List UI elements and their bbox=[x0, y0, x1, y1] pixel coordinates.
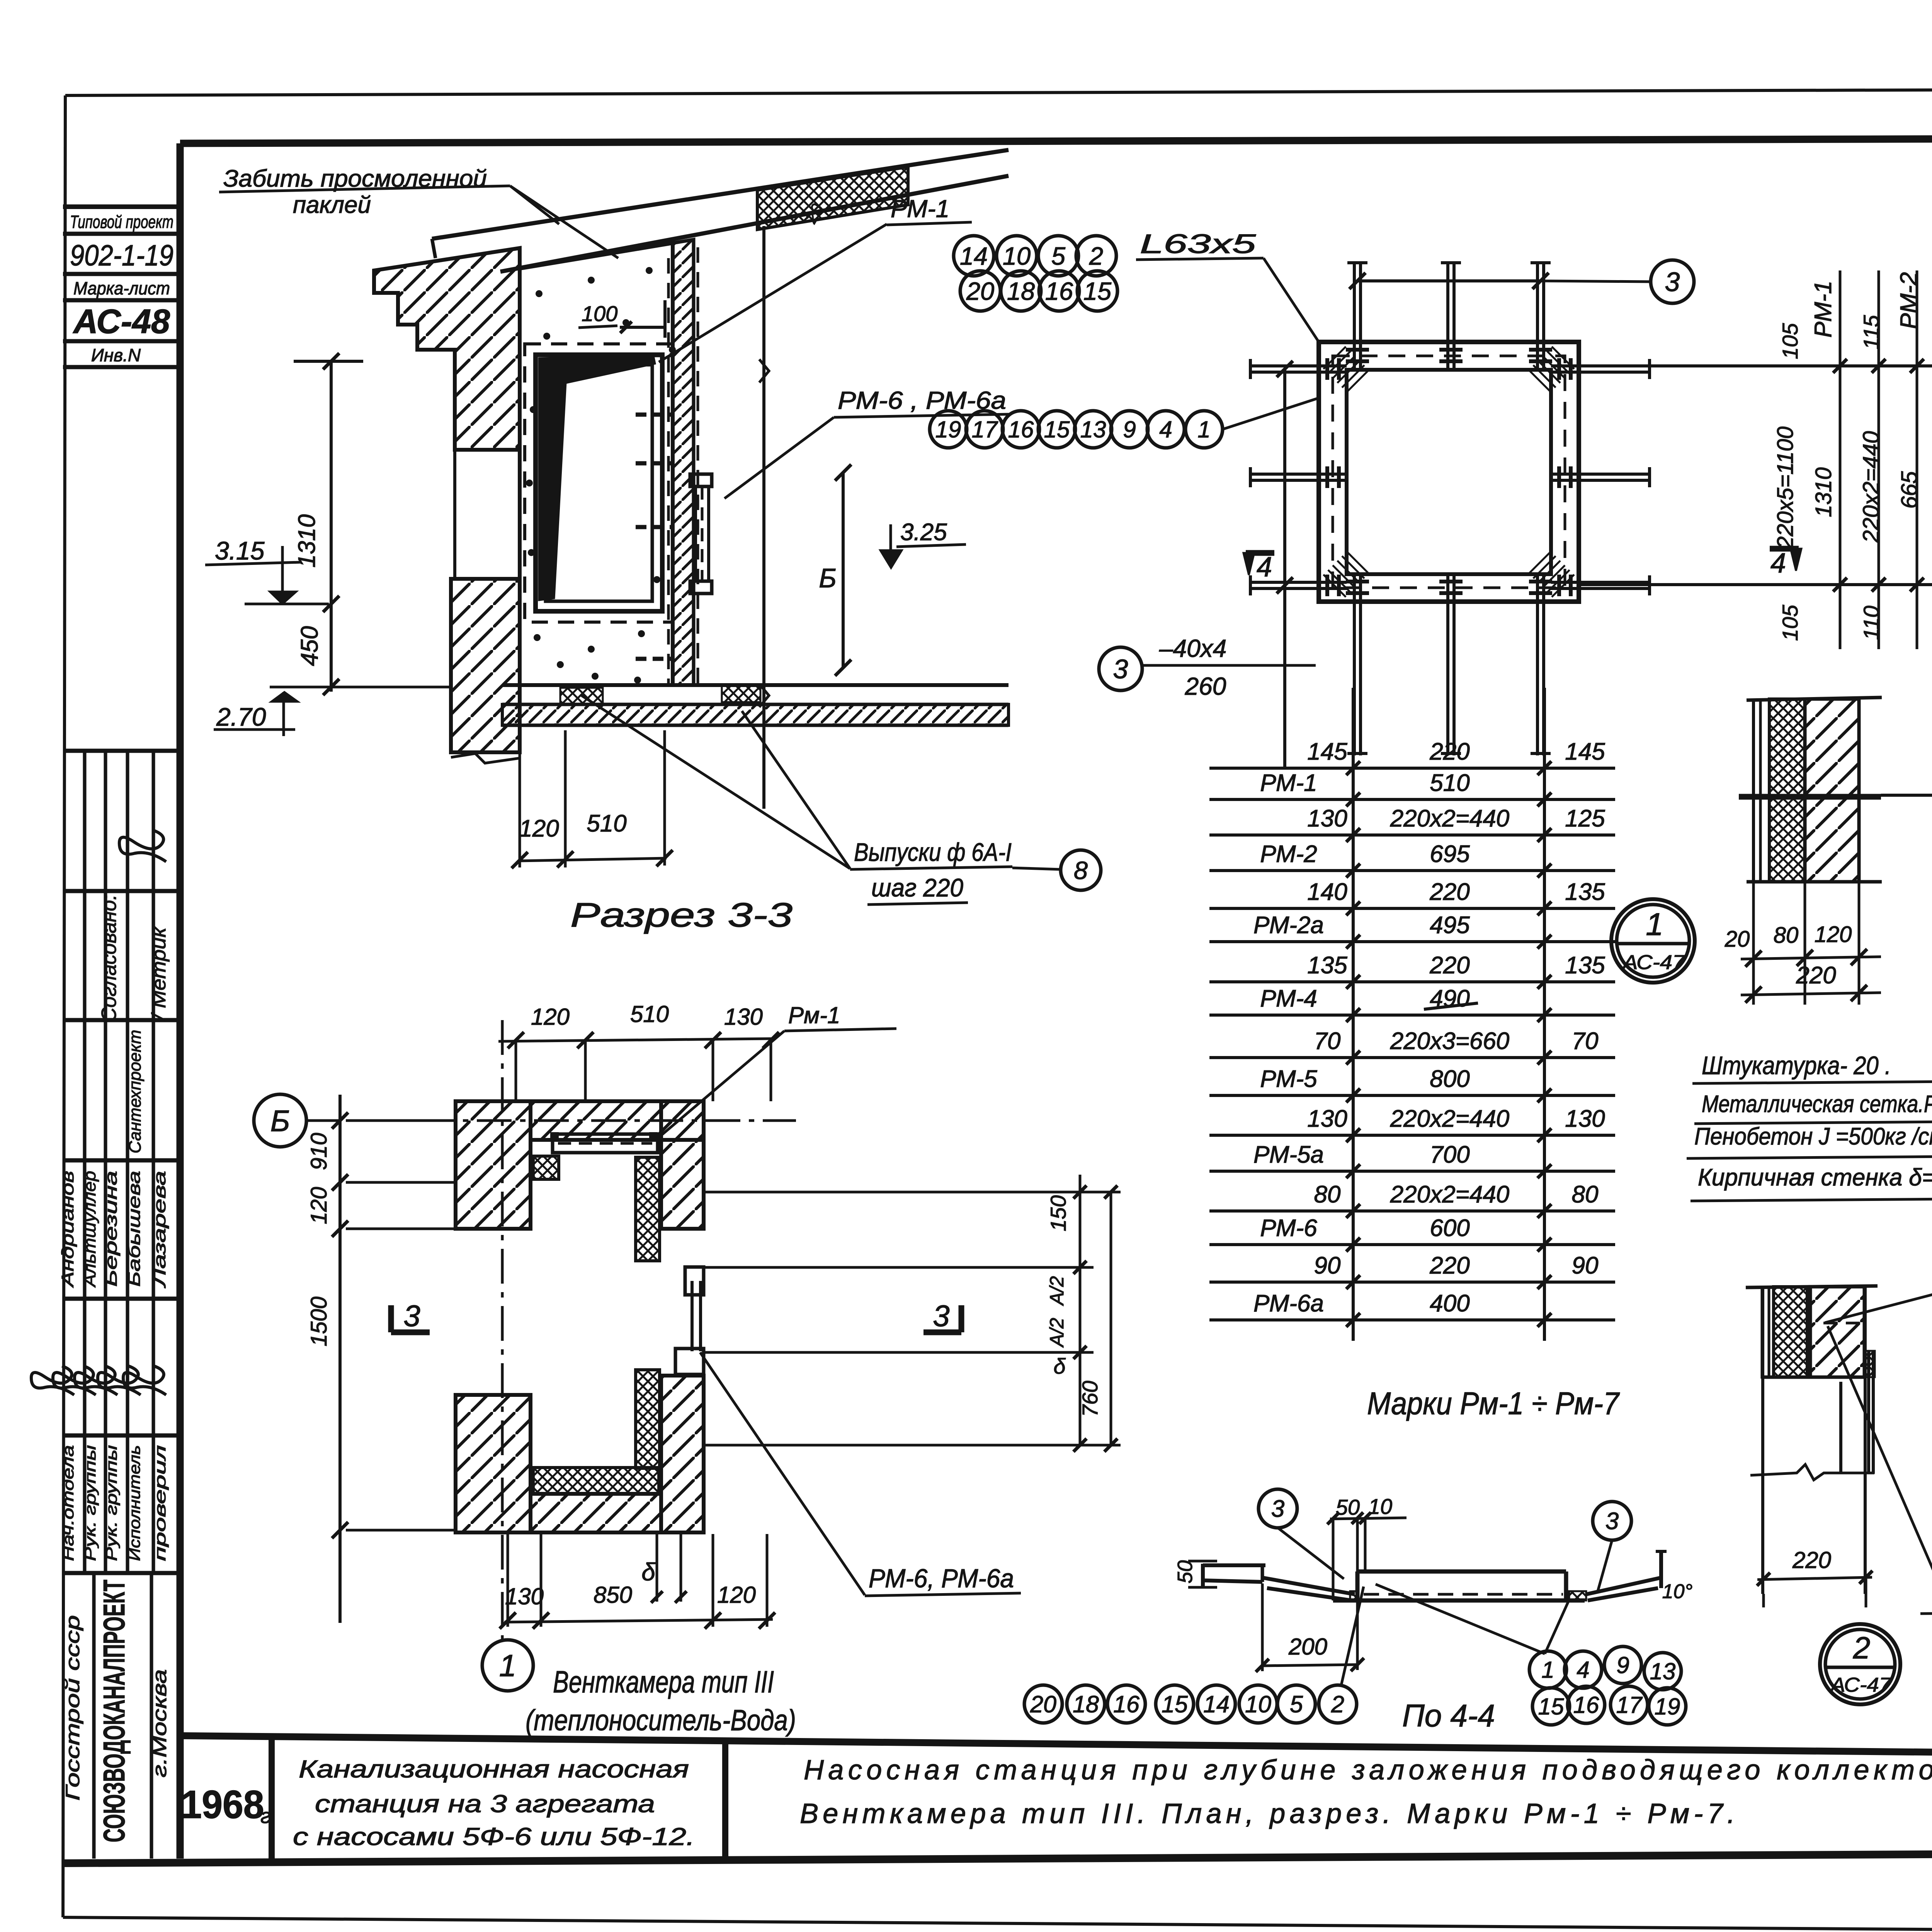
svg-text:По 4-4: По 4-4 bbox=[1402, 1698, 1495, 1733]
dashed anchor frame around opening bbox=[525, 344, 673, 622]
svg-text:70: 70 bbox=[1572, 1028, 1599, 1054]
svg-text:200: 200 bbox=[1288, 1634, 1327, 1660]
svg-text:Пенобетон Ј =500кг /см²: Пенобетон Ј =500кг /см² bbox=[1694, 1123, 1932, 1150]
svg-text:δ: δ bbox=[641, 1558, 656, 1586]
strip row: Марка-лист bbox=[63, 298, 180, 303]
svg-text:Сантехпроект: Сантехпроект bbox=[126, 1030, 145, 1153]
svg-text:18: 18 bbox=[1007, 277, 1035, 305]
svg-text:100: 100 bbox=[582, 301, 617, 326]
svg-text:15: 15 bbox=[1538, 1694, 1564, 1719]
dimension ladder rails bbox=[1352, 688, 1355, 1341]
svg-text:10: 10 bbox=[1368, 1494, 1392, 1519]
svg-text:РМ-1: РМ-1 bbox=[891, 195, 949, 223]
svg-text:910: 910 bbox=[306, 1133, 332, 1170]
svg-text:Рук. группы: Рук. группы bbox=[103, 1445, 120, 1561]
svg-text:5: 5 bbox=[1051, 242, 1066, 270]
ladder row РМ-2 695 bbox=[1209, 869, 1615, 872]
plan bottom wall band bbox=[531, 1494, 661, 1532]
svg-text:5: 5 bbox=[1290, 1691, 1303, 1717]
brick lining strip right of panel bbox=[673, 240, 694, 685]
opening element right wall bbox=[685, 1267, 704, 1295]
frame plan dashed contour bbox=[1333, 356, 1565, 588]
svg-text:СОЮЗВОДОКАНАЛПРОЕКТ: СОЮЗВОДОКАНАЛПРОЕКТ bbox=[97, 1580, 131, 1842]
svg-text:РМ-5а: РМ-5а bbox=[1253, 1141, 1324, 1168]
svg-text:50: 50 bbox=[1173, 1560, 1197, 1583]
svg-text:1968: 1968 bbox=[181, 1782, 264, 1827]
svg-text:паклей: паклей bbox=[293, 192, 371, 218]
strip row: АС-48 bbox=[63, 339, 180, 344]
svg-text:Андрианов: Андрианов bbox=[58, 1171, 77, 1288]
svg-text:3.15: 3.15 bbox=[215, 536, 265, 565]
svg-text:400: 400 bbox=[1430, 1290, 1469, 1317]
svg-text:Марки Рм-1 ÷ Рм-7: Марки Рм-1 ÷ Рм-7 bbox=[1367, 1386, 1620, 1421]
svg-text:220х2=440: 220х2=440 bbox=[1390, 1105, 1510, 1132]
svg-text:13: 13 bbox=[1650, 1658, 1676, 1684]
ladder row 140 220 bbox=[1209, 907, 1615, 910]
plan wall top-left block bbox=[456, 1101, 531, 1229]
top dimension 220 with bubble 3 bbox=[1357, 279, 1541, 282]
svg-text:450: 450 bbox=[296, 626, 323, 666]
svg-text:16: 16 bbox=[1045, 277, 1073, 305]
break line under lower wall bbox=[451, 753, 520, 763]
leader to bubble cluster bbox=[1341, 1587, 1364, 1687]
ladder row 70 220х3=660 bbox=[1209, 1056, 1615, 1059]
title block bottom line bbox=[63, 1851, 1932, 1863]
concrete wall panel bbox=[520, 243, 673, 685]
svg-text:220: 220 bbox=[1429, 952, 1469, 979]
dimension fan: chain lines bbox=[1579, 364, 1932, 367]
ladder row РМ-5а 700 bbox=[1209, 1170, 1615, 1173]
detail 2: wall below bbox=[1761, 1287, 1764, 1594]
svg-text:проверил: проверил bbox=[152, 1445, 169, 1561]
svg-text:3: 3 bbox=[1271, 1496, 1284, 1522]
frame plan inner square bbox=[1347, 370, 1551, 574]
svg-text:АС-48: АС-48 bbox=[73, 302, 170, 340]
ladder row 145 220 bbox=[1209, 767, 1615, 770]
svg-text:220х3=660: 220х3=660 bbox=[1390, 1028, 1510, 1054]
svg-text:1500: 1500 bbox=[306, 1296, 332, 1346]
svg-text:510: 510 bbox=[630, 1001, 669, 1027]
svg-text:90: 90 bbox=[1572, 1252, 1599, 1279]
ladder row 135 220 bbox=[1209, 980, 1615, 983]
svg-text:3: 3 bbox=[1665, 267, 1680, 297]
svg-text:3: 3 bbox=[403, 1299, 420, 1333]
detail 1: dims 20 80 120 220 bbox=[1752, 882, 1755, 1005]
svg-text:2: 2 bbox=[1853, 1631, 1871, 1665]
svg-text:220: 220 bbox=[1429, 738, 1469, 765]
svg-text:А/2: А/2 bbox=[1046, 1276, 1068, 1306]
svg-text:10: 10 bbox=[1245, 1691, 1271, 1717]
left dimension line 1310/450 bbox=[330, 361, 333, 692]
svg-text:800: 800 bbox=[1430, 1066, 1469, 1092]
svg-text:510: 510 bbox=[1430, 770, 1469, 796]
svg-text:2: 2 bbox=[1089, 242, 1103, 270]
signatures column bbox=[29, 1361, 79, 1395]
position bubbles 20 18 16 15 bbox=[960, 271, 1000, 311]
sheet outer border bbox=[65, 88, 1932, 95]
svg-text:РМ-6: РМ-6 bbox=[1260, 1215, 1317, 1242]
svg-text:1310: 1310 bbox=[1811, 467, 1836, 517]
svg-text:19: 19 bbox=[1655, 1694, 1680, 1719]
svg-text:Рм-1: Рм-1 bbox=[788, 1002, 840, 1028]
svg-text:902-1-19: 902-1-19 bbox=[70, 239, 173, 272]
svg-text:20: 20 bbox=[966, 277, 994, 305]
svg-text:г.Москва: г.Москва bbox=[149, 1669, 170, 1777]
frame plan rebar legs bbox=[1353, 261, 1356, 370]
svg-text:Лазарева: Лазарева bbox=[150, 1171, 169, 1289]
detail 2: break line bbox=[1750, 1464, 1874, 1480]
svg-text:18: 18 bbox=[1073, 1691, 1099, 1717]
plan right dimension stack 150 А/2 760 bbox=[1079, 1175, 1082, 1445]
svg-text:Исполнитель: Исполнитель bbox=[126, 1445, 143, 1561]
svg-text:130: 130 bbox=[1565, 1105, 1605, 1132]
svg-text:145: 145 bbox=[1307, 738, 1347, 765]
svg-text:760: 760 bbox=[1078, 1381, 1102, 1417]
bubble cluster 1 4 9 13 / 15 16 17 19 bbox=[1529, 1651, 1566, 1688]
svg-text:4: 4 bbox=[1257, 552, 1272, 583]
svg-text:220х2=440: 220х2=440 bbox=[1390, 805, 1510, 832]
svg-text:Инв.N: Инв.N bbox=[91, 345, 141, 365]
leader РМ-4 to Выпуски bbox=[1828, 1326, 1932, 1594]
svg-text:4: 4 bbox=[1770, 548, 1786, 579]
rebar dots in panel bbox=[536, 290, 543, 297]
svg-text:(теплоноситель-Вода): (теплоноситель-Вода) bbox=[526, 1704, 796, 1737]
svg-text:Кирпичная стенка δ=120мм: Кирпичная стенка δ=120мм bbox=[1698, 1164, 1932, 1191]
svg-text:130: 130 bbox=[1307, 1105, 1347, 1132]
svg-text:1: 1 bbox=[499, 1648, 517, 1683]
wall joint middle band bbox=[453, 450, 456, 579]
detail 1: wall strip bbox=[1747, 697, 1882, 700]
svg-text:510: 510 bbox=[587, 810, 626, 837]
ladder row 130 220х2=440 bbox=[1209, 1134, 1615, 1137]
channel РМ-6 on right face bbox=[690, 474, 712, 486]
svg-text:665: 665 bbox=[1897, 471, 1922, 509]
roof slab of section 3-3 bbox=[432, 150, 1009, 239]
ladder row 130 220х2=440 bbox=[1209, 833, 1615, 837]
plan left dimension line 910/120/1500 bbox=[338, 1095, 342, 1623]
svg-text:L63х5: L63х5 bbox=[1140, 229, 1257, 259]
position bubbles 19 17 16 15 13 9 4 1 bbox=[930, 411, 967, 448]
svg-text:20: 20 bbox=[1725, 927, 1750, 952]
svg-text:3: 3 bbox=[933, 1299, 949, 1333]
svg-text:с насосами 5Ф-6 или 5Ф-12.: с насосами 5Ф-6 или 5Ф-12. bbox=[293, 1823, 695, 1850]
svg-text:РМ-6, РМ-6а: РМ-6, РМ-6а bbox=[869, 1564, 1014, 1593]
upper left wall (hatched) with parapet bbox=[374, 248, 520, 450]
detail bubble 1 (plan) bbox=[482, 1640, 533, 1691]
plan top wall band bbox=[531, 1101, 704, 1140]
corner weld hatch bbox=[1323, 347, 1346, 369]
detail 2: plaster lines bbox=[1761, 1287, 1764, 1379]
ladder row РМ-5 800 bbox=[1209, 1094, 1615, 1097]
plan lining crosshatch right bottom bbox=[636, 1370, 660, 1468]
svg-text:130: 130 bbox=[1307, 805, 1347, 832]
svg-text:станция на 3 агрегата: станция на 3 агрегата bbox=[315, 1790, 655, 1818]
section mark 3 left bbox=[388, 1305, 394, 1332]
svg-text:1310: 1310 bbox=[294, 514, 320, 568]
floor slab of section 3-3 bbox=[502, 683, 1009, 687]
svg-text:3: 3 bbox=[1605, 1508, 1619, 1535]
bubble row 20 18 16 15 14 10 5 2 bbox=[1024, 1685, 1062, 1723]
svg-text:220: 220 bbox=[1429, 1252, 1469, 1279]
ladder row РМ-1 510 bbox=[1209, 798, 1615, 801]
svg-text:220: 220 bbox=[1429, 879, 1469, 905]
svg-text:Венткамера тип III: Венткамера тип III bbox=[553, 1665, 774, 1699]
svg-text:16: 16 bbox=[1113, 1691, 1139, 1717]
dashed lines along lining strip bbox=[667, 258, 670, 684]
open hatch lid (dark wedge) bbox=[539, 356, 655, 600]
detail 2: wall top bbox=[1746, 1286, 1878, 1287]
svg-text:70: 70 bbox=[1314, 1028, 1341, 1054]
strip row: Инв.N bbox=[63, 365, 180, 369]
leader bubble 1 to frame bbox=[1223, 398, 1319, 429]
title block cell separators bbox=[269, 1736, 275, 1862]
svg-text:135: 135 bbox=[1307, 952, 1347, 979]
svg-text:16: 16 bbox=[1008, 417, 1034, 442]
svg-text:850: 850 bbox=[594, 1582, 632, 1608]
svg-text:Согласовано:: Согласовано: bbox=[97, 895, 121, 1022]
svg-text:10: 10 bbox=[1003, 242, 1031, 270]
svg-text:4: 4 bbox=[1577, 1657, 1589, 1683]
svg-text:/ Метрик: / Метрик bbox=[148, 926, 170, 1021]
svg-text:17: 17 bbox=[972, 417, 998, 442]
svg-text:Типовой проект: Типовой проект bbox=[70, 212, 173, 232]
svg-text:Госстрой ссср: Госстрой ссср bbox=[62, 1615, 83, 1801]
svg-text:Канализационная насосная: Канализационная насосная bbox=[299, 1755, 689, 1783]
svg-text:130: 130 bbox=[724, 1004, 763, 1030]
svg-text:120: 120 bbox=[519, 815, 559, 842]
svg-text:120: 120 bbox=[717, 1582, 756, 1608]
svg-text:Металлическая сетка.Рабитца: Металлическая сетка.Рабитца bbox=[1702, 1091, 1932, 1117]
svg-text:Разрез 3-3: Разрез 3-3 bbox=[570, 896, 793, 934]
roof insulation crosshatch bbox=[757, 167, 908, 230]
ladder row РМ-6а 400 bbox=[1209, 1318, 1615, 1321]
svg-text:10°: 10° bbox=[1662, 1580, 1693, 1603]
detail 2: dashed line bbox=[1823, 1322, 1866, 1325]
svg-text:–40х4: –40х4 bbox=[1159, 634, 1226, 662]
svg-text:220х2=440: 220х2=440 bbox=[1390, 1181, 1510, 1208]
approval signature squiggle bbox=[117, 825, 171, 862]
svg-text:4: 4 bbox=[1159, 417, 1172, 442]
svg-text:Марка-лист: Марка-лист bbox=[73, 278, 170, 298]
plate mark -40х4 260 bubble 3 bbox=[1099, 647, 1142, 690]
left margin strip bbox=[63, 204, 180, 209]
hatch opening outer frame bbox=[536, 355, 662, 611]
svg-text:3: 3 bbox=[1113, 654, 1128, 684]
svg-text:15: 15 bbox=[1162, 1691, 1188, 1717]
svg-text:АС-47: АС-47 bbox=[1830, 1674, 1892, 1696]
svg-text:135: 135 bbox=[1565, 879, 1605, 905]
svg-text:2: 2 bbox=[1331, 1691, 1344, 1717]
ladder row РМ-6 600 bbox=[1209, 1243, 1615, 1246]
svg-text:Штукатурка- 20 .: Штукатурка- 20 . bbox=[1702, 1051, 1891, 1080]
bubbles 3 for По4-4 bbox=[1259, 1489, 1297, 1528]
svg-text:130: 130 bbox=[505, 1583, 544, 1609]
svg-text:РМ-6а: РМ-6а bbox=[1253, 1290, 1324, 1317]
svg-text:90: 90 bbox=[1314, 1252, 1341, 1279]
title block top line bbox=[180, 1736, 1932, 1759]
ladder row 90 220 bbox=[1209, 1281, 1615, 1284]
svg-text:Б: Б bbox=[270, 1104, 290, 1138]
svg-text:АС-47: АС-47 bbox=[1622, 951, 1686, 974]
svg-text:Выпуски ф 6А-I: Выпуски ф 6А-I bbox=[854, 838, 1012, 866]
svg-text:16: 16 bbox=[1573, 1692, 1599, 1718]
section По4-4: trough bbox=[1357, 1570, 1566, 1574]
svg-text:9: 9 bbox=[1123, 417, 1136, 442]
frame plan РМ-1: outer square bbox=[1319, 342, 1579, 602]
svg-text:600: 600 bbox=[1430, 1215, 1469, 1242]
svg-text:РМ-1: РМ-1 bbox=[1810, 281, 1837, 337]
svg-text:80: 80 bbox=[1314, 1181, 1341, 1208]
section По4-4: left flange bbox=[1203, 1563, 1265, 1567]
svg-text:695: 695 bbox=[1430, 841, 1470, 867]
hatch opening inner frame bbox=[546, 365, 652, 601]
svg-text:Бабышева: Бабышева bbox=[125, 1171, 144, 1287]
svg-text:8: 8 bbox=[1074, 856, 1088, 884]
svg-text:1: 1 bbox=[1541, 1657, 1554, 1683]
vent chamber plan: axis lines bbox=[305, 1119, 796, 1122]
detail bubble 1 АС-47 bbox=[1611, 899, 1695, 983]
detail bubble 2 АС-47 bbox=[1820, 1624, 1900, 1704]
svg-text:135: 135 bbox=[1565, 952, 1605, 979]
svg-text:140: 140 bbox=[1307, 879, 1347, 905]
svg-text:Рук. группы: Рук. группы bbox=[82, 1445, 99, 1561]
svg-text:19: 19 bbox=[935, 417, 961, 442]
svg-text:15: 15 bbox=[1044, 417, 1070, 442]
section mark 3 right bbox=[959, 1305, 964, 1332]
svg-text:РМ-2: РМ-2 bbox=[1896, 272, 1922, 329]
plan wall bottom-left block bbox=[456, 1395, 531, 1532]
section По4-4: right flange bbox=[1586, 1578, 1661, 1594]
svg-text:495: 495 bbox=[1430, 912, 1470, 939]
drawing inner frame bbox=[180, 137, 1932, 143]
frame РМ-7 in top wall bbox=[553, 1134, 658, 1153]
detail 2: brick strip bbox=[1810, 1287, 1864, 1377]
svg-text:220х2=440: 220х2=440 bbox=[1859, 431, 1884, 543]
svg-text:Нач.отдела: Нач.отдела bbox=[60, 1445, 77, 1561]
svg-text:120: 120 bbox=[1815, 922, 1852, 947]
svg-text:15: 15 bbox=[1083, 277, 1112, 305]
svg-text:Альтшуллер: Альтшуллер bbox=[80, 1171, 99, 1288]
svg-text:50: 50 bbox=[1336, 1495, 1360, 1519]
svg-text:РМ-2: РМ-2 bbox=[1260, 841, 1317, 867]
svg-text:120: 120 bbox=[306, 1187, 332, 1225]
svg-text:125: 125 bbox=[1565, 805, 1605, 832]
svg-text:А/2: А/2 bbox=[1046, 1318, 1068, 1348]
svg-text:105: 105 bbox=[1778, 323, 1802, 359]
svg-text:700: 700 bbox=[1430, 1141, 1469, 1168]
plan bottom-right corner block bbox=[661, 1376, 704, 1532]
svg-text:20: 20 bbox=[1030, 1691, 1056, 1717]
svg-text:14: 14 bbox=[960, 242, 988, 270]
svg-text:220: 220 bbox=[1796, 962, 1836, 989]
plan lining crosshatch right top bbox=[636, 1157, 660, 1261]
svg-text:Б: Б bbox=[819, 563, 837, 593]
anchor crosshatch pads on floor bbox=[560, 688, 603, 704]
ladder row РМ-2а 495 bbox=[1209, 940, 1615, 943]
svg-text:РМ-1: РМ-1 bbox=[1260, 770, 1317, 796]
svg-text:115: 115 bbox=[1859, 315, 1883, 350]
svg-text:1: 1 bbox=[1197, 417, 1210, 442]
right axis line of section 3-3 bbox=[762, 226, 765, 809]
section mark 4 left bbox=[1246, 550, 1274, 556]
svg-text:105: 105 bbox=[1778, 604, 1802, 641]
svg-text:120: 120 bbox=[531, 1004, 570, 1030]
dimension fan: column lines bbox=[1839, 270, 1842, 649]
strip row: 902-1-19 bbox=[63, 272, 180, 276]
svg-text:δ: δ bbox=[1053, 1354, 1066, 1378]
svg-text:РМ-2а: РМ-2а bbox=[1253, 912, 1324, 939]
svg-text:1: 1 bbox=[1646, 907, 1663, 942]
leader to roof bbox=[510, 186, 559, 224]
anchor dash marks bbox=[636, 353, 672, 357]
svg-text:110: 110 bbox=[1859, 605, 1883, 640]
plan lining block top-left bbox=[533, 1156, 559, 1179]
svg-text:260: 260 bbox=[1185, 672, 1226, 700]
organisation block bbox=[92, 1573, 96, 1859]
svg-text:145: 145 bbox=[1565, 738, 1605, 765]
ladder row РМ-4 490 bbox=[1209, 1014, 1615, 1017]
svg-text:9: 9 bbox=[1616, 1652, 1629, 1678]
svg-text:Березина: Березина bbox=[102, 1171, 121, 1287]
svg-text:80: 80 bbox=[1774, 923, 1799, 948]
svg-text:г.: г. bbox=[260, 1804, 277, 1828]
svg-text:220х5=1100: 220х5=1100 bbox=[1773, 427, 1798, 549]
plan top-right corner block bbox=[661, 1101, 704, 1229]
detail 2: foam strip bbox=[1774, 1287, 1807, 1377]
plan lining crosshatch bottom bbox=[533, 1468, 659, 1494]
detail 1: mesh line bbox=[1739, 794, 1881, 800]
svg-text:150: 150 bbox=[1046, 1195, 1070, 1231]
svg-text:14: 14 bbox=[1203, 1691, 1230, 1717]
section mark 4 right bbox=[1770, 546, 1799, 552]
detail 2: bottom of lining bbox=[1762, 1376, 1841, 1379]
svg-text:17: 17 bbox=[1616, 1692, 1643, 1718]
svg-text:РМ-5: РМ-5 bbox=[1260, 1066, 1317, 1092]
svg-text:2.70: 2.70 bbox=[216, 702, 266, 731]
strip row: Типовой проект bbox=[63, 232, 180, 236]
approval table grid bbox=[63, 749, 180, 753]
lower left wall (hatched) bbox=[451, 579, 520, 752]
strikethrough on 490 bbox=[1424, 1003, 1478, 1009]
left vertical dim of frame legs bbox=[1283, 369, 1286, 767]
svg-text:шаг 220: шаг 220 bbox=[871, 873, 963, 902]
position bubbles 14 10 5 2 bbox=[954, 236, 994, 276]
axis bubble Б bbox=[254, 1094, 306, 1147]
ladder row 80 220х2=440 bbox=[1209, 1209, 1615, 1213]
svg-text:220: 220 bbox=[1792, 1547, 1831, 1573]
svg-text:3.25: 3.25 bbox=[900, 519, 947, 546]
svg-text:80: 80 bbox=[1572, 1181, 1599, 1208]
svg-text:13: 13 bbox=[1080, 417, 1106, 442]
svg-text:РМ-4: РМ-4 bbox=[1260, 985, 1317, 1012]
